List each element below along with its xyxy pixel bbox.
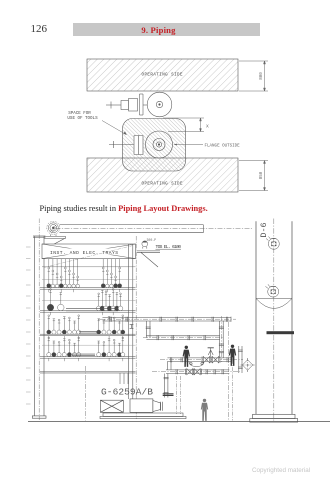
page number (31, 23, 48, 35)
vessel nozzle N2 (265, 284, 278, 297)
hatched wall, bottom operating side (87, 158, 238, 192)
drain loop under run C (189, 362, 204, 367)
person standing on ground (201, 399, 208, 421)
V1 centerline (220, 316, 222, 362)
svg-text:G-6259A/B: G-6259A/B (101, 387, 153, 398)
pipe run A (upper) (103, 317, 232, 322)
valve on run D 1 (186, 369, 194, 375)
pipe run D with valves (166, 369, 229, 374)
run A centerline (98, 318, 236, 320)
dimension X (163, 118, 204, 132)
chapter header bar (73, 23, 260, 36)
dimension 850 (239, 161, 268, 191)
valve stem and handwheel (208, 348, 214, 357)
centerline verticals (228, 322, 230, 421)
ground line (28, 421, 330, 423)
svg-text:INST. AND ELEC. TRAYS: INST. AND ELEC. TRAYS (50, 250, 118, 256)
vessel base (250, 414, 298, 422)
run D centerline (152, 371, 240, 373)
vessel D-6 shell (256, 221, 292, 414)
person at valve station (left) (183, 346, 190, 367)
elbow run C to run D (167, 362, 171, 370)
TOS bracket beam (137, 251, 160, 267)
hatched valve body block (109, 119, 186, 172)
dark platform bar on vessel (267, 331, 295, 334)
drop pipe A to B (146, 321, 151, 338)
left column centerline (38, 219, 40, 421)
pipe sections and instrument stems on rack levels (47, 259, 125, 361)
run C centerline (160, 359, 243, 361)
run B centerline (143, 337, 224, 339)
pipes between rack bays (66, 309, 118, 356)
svg-text:300-P: 300-P (147, 238, 157, 242)
vessel nozzle N1 (266, 237, 279, 250)
tray support line (42, 266, 136, 268)
label: space for use of tools (67, 112, 126, 135)
rack beams (40, 288, 136, 373)
pump casing (130, 399, 162, 412)
svg-text:TOS EL. 6100: TOS EL. 6100 (156, 244, 182, 250)
pipe centerline (56, 227, 253, 229)
instrument and electrical trays box (42, 244, 136, 259)
pipe run C with gate valves (167, 357, 231, 362)
intermediate tray lines (42, 280, 136, 346)
valve V1 plan view with handwheel (106, 92, 172, 117)
pipe rack left column (32, 236, 46, 418)
caption (40, 204, 208, 213)
vessel centerline (273, 219, 275, 422)
person at valve station (right) (229, 345, 236, 366)
large pipe run across top (60, 225, 204, 233)
gate valve GV1 (202, 357, 211, 363)
top bracket beam (44, 236, 66, 249)
small vertical pipe right of valves (238, 346, 243, 373)
pump motor box (100, 400, 123, 412)
copyright note (252, 467, 310, 474)
pipe section with shoe at TOS (142, 241, 148, 249)
pipe run B (146, 335, 219, 340)
label: flange outside (174, 144, 241, 149)
knee brace under tray box (44, 246, 133, 268)
valve on run D 2 (193, 369, 201, 375)
chapter title (65, 25, 252, 35)
dimension 800 (239, 61, 268, 91)
svg-text:D-6: D-6 (259, 222, 269, 237)
diamond locator symbol (241, 358, 255, 372)
pump centerline (85, 366, 87, 421)
beam section mark (130, 325, 134, 329)
column legs below rack (120, 373, 128, 384)
right column centerline (135, 236, 137, 419)
pipe rack right column (129, 244, 133, 399)
pump discharge pipe (164, 374, 169, 398)
pump baseplate (100, 413, 186, 419)
hatched wall, top operating side (87, 59, 238, 91)
gate valve GV2 (211, 357, 220, 363)
elevation tick marks (26, 247, 31, 404)
insulated pipe section on column top (47, 221, 60, 236)
vertical pipe V1 (219, 321, 224, 358)
